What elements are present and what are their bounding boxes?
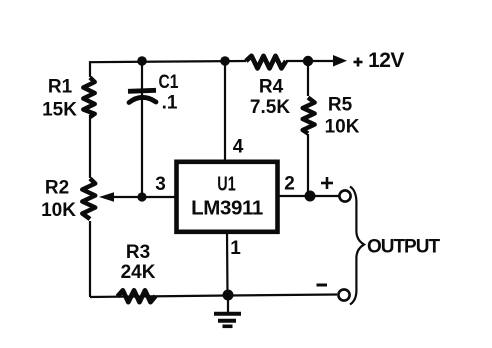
svg-text:3: 3 (155, 174, 166, 195)
wire pin2 to output (278, 195, 339, 197)
R2 wiper arrow (99, 192, 114, 202)
resistor R5 (303, 98, 315, 134)
resistor R3 (118, 290, 156, 302)
label R4 7.5K (250, 77, 290, 119)
label R3 24K (121, 242, 156, 283)
svg-text:LM3911: LM3911 (191, 197, 263, 220)
junction pin 3 wire / C1 (137, 192, 146, 201)
junction supply rail / C1 (137, 56, 147, 66)
output terminal - (338, 289, 349, 300)
svg-text:4: 4 (233, 137, 244, 158)
resistor R4 (246, 56, 286, 68)
label C1 .1 (159, 71, 179, 114)
svg-text:R3: R3 (126, 242, 150, 263)
wire bottom rail (90, 295, 337, 298)
wire pin1 branch (226, 232, 229, 295)
svg-text:24K: 24K (121, 262, 156, 283)
svg-text:.1: .1 (162, 93, 178, 114)
resistor R1 (83, 78, 94, 118)
svg-text:2: 2 (284, 174, 295, 195)
label +12V (354, 58, 363, 67)
wire pin3 from R2 wiper to U1 (108, 196, 176, 198)
svg-text:C1: C1 (159, 71, 179, 93)
op-amp U1 box (177, 162, 278, 232)
wire top supply rail (89, 61, 334, 62)
svg-text:R1: R1 (48, 77, 73, 98)
svg-text:7.5K: 7.5K (250, 97, 290, 118)
svg-text:R2: R2 (45, 178, 69, 199)
svg-text:R5: R5 (328, 95, 353, 116)
+12V arrow (333, 55, 347, 67)
label R1 15K (42, 77, 77, 121)
wire pin4 branch (224, 61, 226, 162)
label R2 10K (41, 178, 76, 222)
junction supply rail / R5 (303, 56, 313, 66)
wire left vertical branch (89, 61, 91, 297)
output terminal + (339, 190, 350, 201)
junction pin 2 wire / R5 (305, 191, 316, 202)
wire R5 branch (307, 61, 309, 196)
junction ground node (223, 290, 234, 301)
svg-text:U1: U1 (217, 172, 236, 195)
capacitor C1 (128, 60, 156, 197)
svg-text:1: 1 (230, 238, 241, 259)
label + polarity (321, 177, 333, 189)
svg-text:R4: R4 (259, 77, 284, 98)
svg-text:10K: 10K (41, 200, 76, 221)
output brace (350, 187, 364, 305)
ground (214, 295, 241, 326)
junction supply rail / pin 4 (220, 56, 230, 66)
svg-text:OUTPUT: OUTPUT (367, 237, 441, 258)
label - polarity (317, 284, 328, 287)
label R5 10K (325, 95, 360, 138)
svg-text:12V: 12V (368, 49, 404, 72)
svg-text:10K: 10K (325, 117, 360, 138)
resistor R2 potentiometer (82, 179, 95, 220)
svg-text:15K: 15K (42, 100, 77, 121)
